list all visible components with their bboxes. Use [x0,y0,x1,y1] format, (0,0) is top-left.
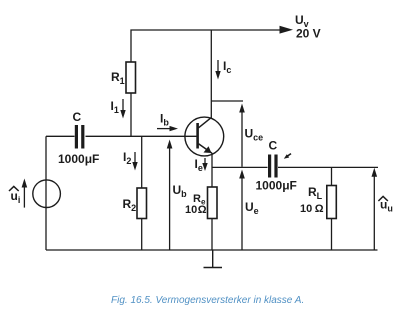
current arrow I2 [123,150,138,171]
svg-text:Fig. 16.5. Vermogensversterker: Fig. 16.5. Vermogensversterker in klasse… [111,295,304,306]
svg-text:Uce: Uce [245,127,264,143]
voltage arrow uu (output) [372,168,393,250]
pointer arrow at C2 [284,154,291,159]
capacitor C2 (output) [256,139,297,193]
voltage arrow Ub [167,140,187,251]
svg-text:20 V: 20 V [296,27,321,41]
supply arrow Uv 20V [280,13,321,41]
wire collector stub for Uce [211,100,243,102]
svg-text:10Ω: 10Ω [300,203,324,215]
svg-text:10Ω: 10Ω [185,204,207,216]
source G1 (input signal) [33,180,61,208]
voltage arrow ui (input) [9,179,27,208]
svg-text:C: C [269,139,278,153]
ground [204,250,223,268]
wire collector vertical [210,30,212,118]
resistor R1 [111,62,136,93]
wire base line (capacitor C to transistor base) [86,135,198,137]
current arrow I1 [111,99,126,119]
wire RL branch [331,167,333,250]
svg-text:ui: ui [11,189,21,205]
svg-text:Ub: Ub [173,183,188,199]
current arrow Ie [195,157,208,173]
wire output line left of capacitor C2 [212,166,268,168]
svg-text:RL: RL [308,185,323,201]
wire top supply rail [131,30,281,136]
resistor RL [300,185,336,219]
svg-text:1000μF: 1000μF [58,152,99,166]
resistor R2 [123,188,147,219]
svg-text:C: C [73,110,82,124]
svg-text:I1: I1 [111,99,119,115]
wire bottom rail [46,249,378,251]
svg-text:R1: R1 [111,70,125,86]
svg-text:Ue: Ue [245,200,259,216]
voltage arrow Ue [239,170,258,251]
svg-text:R2: R2 [123,197,137,213]
wire output line right of capacitor C2 [278,166,378,168]
current arrow Ib [157,112,178,132]
transistor Q1 [185,117,224,156]
wire input line left of capacitor C [46,135,75,137]
svg-text:Ie: Ie [195,157,203,173]
wire R2 branch [141,136,143,250]
voltage arrow Uce [239,104,263,167]
current arrow Ic [215,59,231,80]
capacitor C1 (input) [58,110,99,166]
wire left rail (source branch) [45,136,47,250]
wire emitter vertical [211,153,213,250]
svg-text:Ic: Ic [223,59,231,75]
svg-text:I2: I2 [123,150,131,166]
svg-text:Ib: Ib [160,112,169,128]
resistor Re [185,187,217,219]
svg-text:1000μF: 1000μF [256,179,297,193]
